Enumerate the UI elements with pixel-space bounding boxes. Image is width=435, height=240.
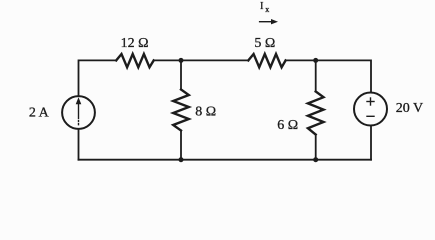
wire node1 top stub [180, 60, 182, 89]
current source I1 arrow dotted tail [78, 121, 80, 127]
current source I1 circle [62, 96, 95, 129]
resistor R4 6 ohm [308, 92, 324, 135]
svg-text:I: I [260, 1, 264, 12]
svg-text:12 Ω: 12 Ω [121, 36, 149, 51]
node C junction dot bottom [179, 157, 184, 162]
node D junction dot bottom [313, 157, 318, 162]
wire left lower segment [78, 129, 80, 160]
resistor R1 12 ohm [116, 54, 154, 67]
wire node2 top stub [315, 60, 317, 91]
current arrow Ix shaft [260, 21, 273, 23]
wire top right segment [286, 60, 371, 92]
wire node2 bottom stub [315, 135, 317, 160]
wire bottom [79, 159, 372, 161]
node A junction dot top [179, 58, 184, 63]
wire top middle segment [154, 59, 249, 61]
svg-text:8 Ω: 8 Ω [195, 104, 216, 119]
node B junction dot top [313, 58, 318, 63]
svg-text:2 A: 2 A [29, 106, 50, 121]
current source I1 arrowhead [76, 97, 82, 104]
resistor R2 5 ohm [248, 54, 285, 67]
current source I1 arrow shaft [78, 104, 80, 119]
svg-text:20 V: 20 V [396, 101, 423, 116]
wire right lower segment [370, 126, 372, 160]
svg-text:5 Ω: 5 Ω [254, 36, 275, 51]
svg-text:x: x [265, 5, 269, 14]
voltage source V1 circle [354, 93, 387, 126]
current arrow Ix head [271, 19, 278, 24]
wire node1 bottom stub [180, 131, 182, 160]
wire top left segment [79, 60, 117, 96]
voltage source V1 minus sign [367, 115, 374, 117]
resistor R3 8 ohm [173, 90, 189, 131]
svg-text:6 Ω: 6 Ω [277, 118, 298, 133]
voltage source V1 plus sign [367, 101, 374, 103]
